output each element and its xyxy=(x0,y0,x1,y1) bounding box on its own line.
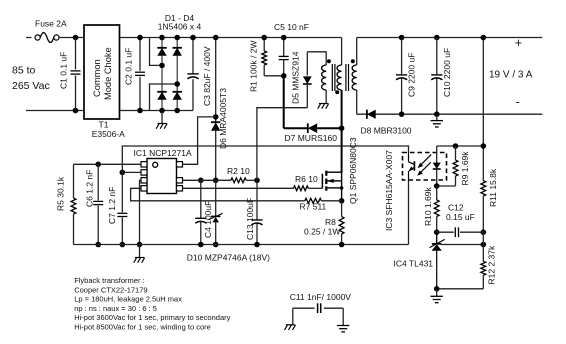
svg-text:0.25 / 1W: 0.25 / 1W xyxy=(304,227,340,237)
wire AC neutral input xyxy=(26,110,84,112)
svg-text:R10 1.69k: R10 1.69k xyxy=(423,187,433,226)
svg-text:C4 100uF: C4 100uF xyxy=(203,201,213,238)
svg-text:IC1 NCP1271A: IC1 NCP1271A xyxy=(134,148,192,158)
pin IC1 left pin 2 xyxy=(141,170,147,175)
svg-text:265 Vac: 265 Vac xyxy=(12,80,50,92)
wire output minus rail xyxy=(357,113,543,115)
diode D7 MURS160 xyxy=(308,123,317,133)
pin IC1 right pin 5 xyxy=(177,186,183,191)
wire R9 bottom xyxy=(437,185,456,187)
wire fb top xyxy=(437,145,484,147)
wire D5 to vcc node xyxy=(257,108,307,181)
resistor R9 1.69k xyxy=(453,160,458,176)
node snubber xyxy=(281,73,287,79)
node vcc wire junction xyxy=(213,178,219,184)
diode IC3 LED xyxy=(436,146,438,163)
wire secondary top xyxy=(356,38,358,66)
resistor R12 2.37k xyxy=(482,232,484,261)
node C3 top xyxy=(190,35,196,41)
node bridge right top xyxy=(174,35,180,41)
svg-text:R6 10: R6 10 xyxy=(295,174,318,184)
capacitor C9 2200uF xyxy=(399,35,405,41)
node secondary phase dot xyxy=(351,59,355,63)
svg-text:R7 511: R7 511 xyxy=(300,202,327,212)
node bridge right bottom xyxy=(174,108,180,114)
node fuse/C1 junction xyxy=(73,35,79,41)
node C2 top xyxy=(137,35,143,41)
wire pin3 ground xyxy=(140,180,142,244)
svg-text:R12 2.37k: R12 2.37k xyxy=(487,245,497,284)
node C1 bottom junction xyxy=(73,108,79,114)
svg-text:np : ns : naux = 30 : 6 : 5: np : ns : naux = 30 : 6 : 5 xyxy=(74,304,157,313)
shunt-regulator IC4 TL431 xyxy=(436,232,438,244)
node R8 bottom xyxy=(339,242,345,248)
svg-text:R1 100k / 2W: R1 100k / 2W xyxy=(249,41,259,93)
transformer T1 common mode choke box xyxy=(84,25,120,119)
svg-text:Mode Choke: Mode Choke xyxy=(103,47,113,100)
node fb/R11 xyxy=(481,143,487,149)
optocoupler IC3 SFH615AA-X007 box xyxy=(403,153,447,181)
wire TL431 anode xyxy=(437,288,484,290)
resistor R6 10 xyxy=(294,186,309,191)
wire pin5 CS xyxy=(131,188,305,201)
svg-text:Hi-pot 3600Vac for 1 sec, pri: Hi-pot 3600Vac for 1 sec, primary to sec… xyxy=(74,313,230,322)
capacitor C1 xyxy=(75,38,77,70)
wire snubber node xyxy=(264,75,284,77)
node C13 bottom xyxy=(254,242,260,248)
ground aux chassis xyxy=(319,103,328,105)
node rail/aux branch xyxy=(213,35,219,41)
wire AC tap to bridge left mid xyxy=(150,38,163,66)
wire output plus rail xyxy=(357,37,543,39)
capacitor C12 0.15uF xyxy=(437,231,454,233)
svg-text:D7 MURS160: D7 MURS160 xyxy=(285,133,338,143)
transformer secondary winding xyxy=(352,65,357,90)
ground TL431 earth xyxy=(436,289,438,297)
svg-text:R5 30.1k: R5 30.1k xyxy=(56,176,66,211)
wire opto emitter to ground xyxy=(408,180,410,245)
wire primary top xyxy=(341,38,343,66)
resistor R10 1.69k xyxy=(436,186,438,200)
diode D5 MMSZ914 xyxy=(306,52,308,76)
wire AC line input xyxy=(26,37,32,39)
wire pin2 xyxy=(122,171,141,173)
svg-text:1N5406 x 4: 1N5406 x 4 xyxy=(158,22,202,32)
svg-text:C1 0.1 uF: C1 0.1 uF xyxy=(59,52,69,89)
resistor R1 100k/2W xyxy=(263,38,265,52)
svg-text:IC4 TL431: IC4 TL431 xyxy=(394,259,434,269)
capacitor C13 100uF xyxy=(256,180,258,220)
op-amp IC1 NCP1271A body xyxy=(147,159,177,194)
wire vcc feed xyxy=(183,117,216,164)
svg-text:Flyback transformer :: Flyback transformer : xyxy=(74,276,144,285)
transistor IC3 phototransistor xyxy=(408,153,410,162)
wire aux top xyxy=(307,52,326,65)
wire feedback to opto xyxy=(122,146,408,172)
pin IC1 left pin 1 xyxy=(141,162,147,167)
svg-text:C13 100uF: C13 100uF xyxy=(245,198,255,240)
transistor Q1 SPP06N80C3 xyxy=(321,174,323,189)
wire pin6 drive xyxy=(183,187,294,189)
wire bridge right column xyxy=(176,38,178,111)
svg-text:C7 1.2 nF: C7 1.2 nF xyxy=(107,187,117,224)
node bridge right mid xyxy=(174,81,180,87)
transformer primary winding xyxy=(337,65,342,90)
node D10 bottom xyxy=(213,242,219,248)
svg-text:19 V / 3 A: 19 V / 3 A xyxy=(489,70,533,81)
node R11 top xyxy=(481,35,487,41)
ground bridge chassis xyxy=(161,111,163,124)
node TL431 anode xyxy=(434,286,440,292)
wire D7 anode xyxy=(284,127,308,129)
svg-text:E3506-A: E3506-A xyxy=(92,129,125,139)
wire drain xyxy=(341,128,343,172)
svg-text:R9 1.69k: R9 1.69k xyxy=(460,151,470,186)
wire bottom rail choke to C3 xyxy=(120,110,194,112)
svg-text:C10 2200 uF: C10 2200 uF xyxy=(442,48,452,97)
diode D3 xyxy=(173,48,182,56)
wire aux bottom xyxy=(325,90,327,104)
resistor R7 511 xyxy=(305,198,322,203)
node C2 bottom xyxy=(137,108,143,114)
svg-text:Lp = 180uH, leakage 2.5uH max: Lp = 180uH, leakage 2.5uH max xyxy=(74,295,182,304)
diode D8 MBR3100 xyxy=(367,110,376,119)
svg-text:0.15 uF: 0.15 uF xyxy=(446,212,475,222)
resistor R8 0.25/1W xyxy=(341,201,343,217)
svg-text:T1: T1 xyxy=(99,120,109,130)
capacitor C4 100uF xyxy=(200,180,202,218)
node bridge left bottom xyxy=(159,108,165,114)
svg-text:R2 10: R2 10 xyxy=(227,166,250,176)
node D6 top xyxy=(213,114,219,120)
node R1 top xyxy=(261,35,267,41)
node ref/divider xyxy=(481,242,487,248)
wire top rail xyxy=(120,37,342,39)
node primary phase dot xyxy=(335,90,339,94)
ground C11 chassis xyxy=(286,324,295,326)
node bridge left mid xyxy=(159,63,165,69)
svg-text:85 to: 85 to xyxy=(12,65,36,77)
wire light arrow 2 xyxy=(420,162,431,173)
node IC ground xyxy=(137,242,143,248)
svg-text:C5 10 nF: C5 10 nF xyxy=(274,22,309,32)
wire bridge left column xyxy=(161,38,163,111)
wire C11 right xyxy=(342,308,344,325)
svg-text:Q1 SPP06N80C3: Q1 SPP06N80C3 xyxy=(348,137,358,204)
svg-text:C9 2200 uF: C9 2200 uF xyxy=(407,53,417,97)
capacitor C5 10nF xyxy=(283,38,285,57)
ground output earth xyxy=(436,114,438,120)
svg-text:D6 MRA4005T3: D6 MRA4005T3 xyxy=(218,88,228,149)
node C4 top xyxy=(198,178,204,184)
svg-text:C11 1nF/ 1000V: C11 1nF/ 1000V xyxy=(290,292,352,302)
node C4 bottom xyxy=(198,242,204,248)
svg-text:D8 MBR3100: D8 MBR3100 xyxy=(361,126,412,136)
pin IC1 right pin 8 xyxy=(177,162,183,167)
wire snubber down xyxy=(283,76,285,128)
wire R2 to C13 xyxy=(183,179,231,181)
wire R11 branch xyxy=(482,38,484,181)
wire pin1 feedback xyxy=(74,163,142,165)
svg-text:IC3 SFH615AA-X007: IC3 SFH615AA-X007 xyxy=(384,150,394,231)
wire C11 left xyxy=(292,308,294,325)
svg-text:-: - xyxy=(516,95,520,109)
node LED cathode xyxy=(434,183,440,189)
wire primary bottom xyxy=(341,90,343,128)
node drain/primary/D7 xyxy=(339,125,345,131)
svg-text:Hi-pot 8500Vac for 1 sec, win: Hi-pot 8500Vac for 1 sec, winding to cor… xyxy=(74,323,211,332)
svg-text:C12: C12 xyxy=(448,203,464,213)
svg-text:C3 82uF / 400V: C3 82uF / 400V xyxy=(202,46,212,106)
svg-text:+: + xyxy=(515,36,522,50)
zener D10 MZP4746A xyxy=(215,180,217,216)
svg-text:Fuse 2A: Fuse 2A xyxy=(35,19,67,29)
resistor R5 30.1k xyxy=(73,164,75,198)
wire HV to aux branch xyxy=(215,38,217,122)
capacitor C6 1.2nF xyxy=(95,162,101,168)
svg-text:C6 1.2 nF: C6 1.2 nF xyxy=(85,170,95,207)
svg-text:D10 MZP4746A (18V): D10 MZP4746A (18V) xyxy=(187,253,270,263)
svg-text:R8: R8 xyxy=(325,217,336,227)
svg-text:Cooper CTX22-17179: Cooper CTX22-17179 xyxy=(74,285,147,294)
diode D2 xyxy=(157,92,166,100)
svg-text:R11 15.8k: R11 15.8k xyxy=(488,168,498,207)
svg-text:Common: Common xyxy=(92,59,102,97)
svg-text:C2 0.1 uF: C2 0.1 uF xyxy=(124,48,134,85)
diode D6 MRA4005T3 xyxy=(211,122,220,131)
capacitor C10 2200uF xyxy=(434,35,440,41)
wire light arrow 1 xyxy=(420,155,431,166)
ground C11 earth xyxy=(337,325,349,327)
resistor R11 15.8k xyxy=(481,181,486,196)
pin IC1 left pin 4 xyxy=(141,186,147,191)
pin IC1 right pin 6 xyxy=(177,178,183,183)
svg-text:D5 MMSZ914: D5 MMSZ914 xyxy=(291,51,301,104)
wire secondary bottom xyxy=(356,90,358,114)
diode D1 xyxy=(157,48,166,56)
wire TL431 ref xyxy=(442,244,484,246)
fuse F1 2A xyxy=(35,35,40,40)
diode D4 xyxy=(173,92,182,100)
node C5 top xyxy=(281,35,287,41)
node divider xyxy=(481,229,487,235)
wire primary ground rail xyxy=(74,244,409,246)
capacitor C2 xyxy=(139,38,141,71)
transformer core xyxy=(331,64,333,91)
node TL431 cathode xyxy=(434,229,440,235)
resistor R2 10 xyxy=(231,178,246,183)
ground IC chassis xyxy=(139,245,141,258)
capacitor C11 1nF/1000V xyxy=(293,307,315,309)
wire AC tap to bridge right mid xyxy=(150,84,178,111)
wire fuse to node xyxy=(59,37,84,39)
node R9 top xyxy=(453,143,459,149)
node source/R7/R8 xyxy=(339,198,345,204)
node C13 top xyxy=(254,178,260,184)
capacitor C3 xyxy=(192,79,194,110)
node aux phase dot xyxy=(327,59,331,63)
transformer aux winding xyxy=(322,65,327,90)
pin IC1 left pin 3 xyxy=(141,178,147,183)
node bridge left top xyxy=(159,35,165,41)
capacitor C7 1.2nF xyxy=(120,170,126,176)
